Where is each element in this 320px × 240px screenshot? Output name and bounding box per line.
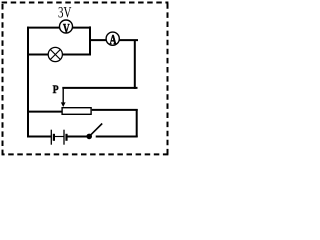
- wire: left rail to lamp: [27, 54, 49, 56]
- voltmeter V: [60, 20, 73, 36]
- svg-text:V: V: [63, 21, 70, 36]
- wire: lower right vertical down to bottom row: [136, 109, 138, 137]
- wire: mid vertical joining voltmeter and lamp branches: [89, 26, 91, 55]
- svg-text:3V: 3V: [58, 5, 72, 22]
- wire: bottom row from left rail to battery: [27, 136, 51, 138]
- wire: lamp to mid vertical node: [62, 54, 91, 56]
- wire: left rail top to voltmeter: [27, 27, 59, 29]
- battery (two cells): [51, 130, 66, 145]
- svg-text:A: A: [110, 32, 117, 47]
- wire: left rail to rheostat: [27, 111, 62, 113]
- wire: slider wire from rheostat arrow to right rail: [62, 87, 137, 89]
- wire: ammeter to right rail: [119, 39, 138, 41]
- svg-text:P: P: [53, 83, 59, 96]
- ammeter A: [106, 32, 119, 47]
- wire: left rail: [27, 27, 29, 138]
- rheostat P: [62, 108, 91, 115]
- wire: mid vertical node to ammeter: [89, 39, 106, 41]
- switch (open): [86, 124, 102, 140]
- lamp: [48, 47, 62, 61]
- wire: right rail down from ammeter row: [134, 40, 136, 89]
- wire: rheostat to lower right vertical: [92, 109, 138, 111]
- slider arrow of rheostat: [61, 88, 66, 107]
- wire: battery to switch: [68, 136, 88, 138]
- wire: switch to lower right vertical: [96, 136, 138, 138]
- wire: voltmeter to mid vertical node: [73, 27, 92, 29]
